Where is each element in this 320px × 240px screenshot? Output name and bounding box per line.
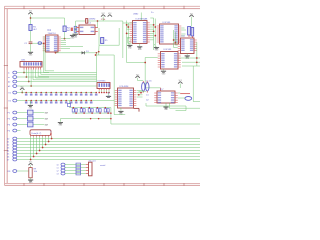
svg-text:rx: rx	[8, 77, 10, 79]
svg-text:USB2: USB2	[133, 14, 139, 16]
svg-text:s2: s2	[57, 171, 59, 173]
svg-text:s3: s3	[57, 174, 59, 176]
svg-text:J: J	[50, 131, 51, 133]
svg-text:X2 conn: X2 conn	[89, 160, 96, 162]
svg-text:IC6 595: IC6 595	[164, 49, 172, 51]
svg-text:s0: s0	[57, 165, 59, 167]
svg-text:16MHz: 16MHz	[89, 19, 95, 21]
svg-text:74HC14: 74HC14	[48, 33, 57, 35]
svg-text:x1: x1	[129, 41, 131, 43]
svg-text:tx: tx	[8, 72, 10, 75]
svg-text:IC3 MEGA8: IC3 MEGA8	[136, 17, 148, 20]
svg-text:serial: serial	[100, 164, 106, 167]
svg-text:10k: 10k	[34, 171, 37, 173]
svg-text:s1: s1	[57, 168, 59, 170]
svg-text:Data(0..7): Data(0..7)	[32, 132, 42, 135]
